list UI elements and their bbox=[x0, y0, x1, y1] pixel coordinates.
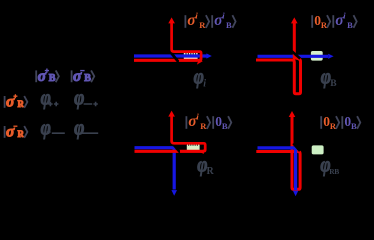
blue output arrowhead down bbox=[293, 191, 299, 197]
svg-text:φ: φ bbox=[74, 86, 84, 110]
wire blue beam turning down with output arrowhead bbox=[135, 148, 175, 190]
node column header |sigma+_B> bbox=[36, 68, 59, 85]
red output arrowhead up bbox=[291, 17, 298, 23]
svg-text:B: B bbox=[49, 73, 56, 84]
wire red beam bbox=[134, 59, 198, 62]
wire red beam with down-U-loop and vertical output bbox=[256, 114, 300, 189]
red circulation arrowhead bbox=[199, 149, 204, 154]
modulator grating ticks bbox=[186, 52, 196, 55]
svg-text:B: B bbox=[351, 121, 357, 131]
node phase label phi_RB bbox=[320, 153, 339, 177]
svg-text:i: i bbox=[203, 78, 206, 89]
wire red beam with delay U-loop and vertical output bbox=[256, 20, 301, 94]
svg-text:B: B bbox=[330, 79, 337, 89]
node row header |sigma+_R> bbox=[5, 93, 28, 110]
node phase label phi_i bbox=[194, 65, 207, 90]
wire red beam bbox=[135, 150, 204, 153]
PANEL3 : blue photon absent bbox=[135, 111, 232, 196]
svg-text:B: B bbox=[226, 20, 232, 30]
wire red loop and vertical output bbox=[172, 20, 202, 60]
node cell phi-- bbox=[74, 116, 98, 140]
svg-text:B: B bbox=[222, 121, 228, 131]
svg-text:φ: φ bbox=[74, 116, 84, 140]
wire red loop and vertical output bbox=[172, 114, 206, 152]
svg-text:RB: RB bbox=[329, 167, 339, 176]
svg-text:R: R bbox=[199, 20, 206, 30]
dichroic mirror diagonal bbox=[293, 143, 300, 151]
dichroic mirror diagonal bbox=[168, 49, 179, 62]
dichroic mirror diagonal bbox=[291, 51, 300, 59]
wire blue beam through modulator bbox=[134, 54, 207, 57]
node cell phi++ bbox=[41, 86, 59, 110]
node row header |sigma-_R> bbox=[5, 123, 28, 140]
node state label |sigma i R>|sigma i B> bbox=[185, 10, 235, 30]
PANEL4 : both photons absent bbox=[256, 111, 360, 196]
svg-text:R: R bbox=[207, 166, 215, 177]
svg-text:R: R bbox=[321, 20, 328, 30]
node cell phi+- bbox=[41, 116, 65, 140]
svg-text:R: R bbox=[200, 121, 207, 131]
PANEL1 : both photons present bbox=[134, 10, 236, 89]
red circulation arrowhead bbox=[197, 58, 203, 64]
node state label |0_R>|0_B> bbox=[321, 114, 360, 131]
red output arrowhead up bbox=[289, 111, 296, 117]
red output arrowhead up bbox=[168, 17, 175, 23]
wire blue beam turning down with output arrowhead bbox=[258, 148, 296, 190]
wire blue beam bbox=[258, 55, 329, 58]
node cell phi-+ bbox=[74, 86, 98, 110]
node state label |sigma i R>|0_B> bbox=[186, 111, 231, 131]
modulator box (striped) bbox=[184, 51, 198, 60]
svg-text:B: B bbox=[347, 20, 353, 30]
blue output arrowhead down bbox=[171, 190, 177, 196]
modulator box (green, off) bbox=[311, 51, 323, 61]
TABLE of phase factors bbox=[5, 68, 99, 140]
svg-text:R: R bbox=[330, 121, 337, 131]
dichroic mirror diagonal bbox=[172, 143, 180, 153]
modulator grating ticks bbox=[189, 144, 198, 146]
svg-text:B: B bbox=[84, 73, 91, 84]
node phase label phi_B bbox=[321, 65, 337, 90]
node phase label phi_R bbox=[197, 153, 214, 178]
node state label |0_R>|sigma i B> bbox=[312, 10, 357, 30]
PANEL2 : red photon absent bbox=[256, 10, 357, 93]
node column header |sigma-_B> bbox=[72, 68, 95, 85]
modulator box (green, off) bbox=[312, 145, 324, 154]
svg-text:φ: φ bbox=[41, 116, 51, 140]
red output arrowhead up bbox=[168, 111, 175, 117]
blue output arrowhead bbox=[328, 54, 333, 59]
blue output arrowhead bbox=[206, 53, 211, 58]
svg-text:φ: φ bbox=[41, 86, 51, 110]
modulator box (striped) bbox=[187, 144, 200, 151]
